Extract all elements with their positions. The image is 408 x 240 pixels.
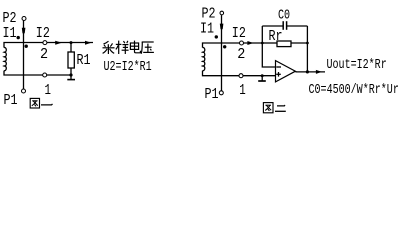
- terminal P2: [22, 17, 26, 21]
- label I1 (fig2): [200, 21, 214, 38]
- output arrow: [316, 70, 322, 74]
- terminal 2 (fig2): [240, 41, 244, 45]
- char dian: [130, 41, 140, 53]
- char ya: [141, 42, 154, 54]
- formula C0=4500/W*Rr*Ur: [309, 81, 399, 97]
- wire feedback right vertical: [306, 26, 308, 72]
- wire coil bottom to opamp plus input: [203, 71, 276, 76]
- polarity dot primary (fig2): [215, 35, 218, 38]
- terminal P2 (fig2): [220, 11, 224, 15]
- caption figure 1 (tu yi): [30, 98, 52, 108]
- formula Uout=I2*Rr: [327, 56, 387, 72]
- node junction R1 top: [70, 41, 73, 44]
- label R1: [77, 53, 91, 70]
- resistor R1: [70, 43, 72, 52]
- label 1: [45, 81, 52, 98]
- label C0: [278, 7, 290, 23]
- capacitor C0: [262, 25, 283, 27]
- char tu: [30, 98, 39, 108]
- resistor Rr: [262, 42, 277, 44]
- node junction R1 bottom: [69, 73, 72, 76]
- svg-text:2: 2: [237, 47, 245, 64]
- svg-text:I1: I1: [3, 26, 17, 43]
- minus sign inside op-amp: [276, 66, 281, 68]
- wire output arrow end: [85, 41, 91, 45]
- svg-text:P1: P1: [4, 93, 18, 110]
- svg-text:1: 1: [239, 81, 246, 98]
- svg-text:I2: I2: [36, 26, 50, 43]
- label I1: [3, 26, 17, 43]
- terminal 2 (secondary): [43, 41, 47, 45]
- text sampling voltage (cai yang dian ya): [103, 41, 154, 54]
- node junction Rr right: [306, 42, 309, 45]
- label Rr: [269, 29, 283, 46]
- char yi (one): [41, 104, 53, 105]
- current arrow I1 (fig2): [220, 24, 224, 30]
- label P2: [3, 11, 17, 28]
- wire inverting feedback left vertical: [262, 26, 275, 67]
- node junction output feedback: [306, 70, 309, 73]
- svg-text:R1: R1: [77, 53, 91, 70]
- label P2 (fig2): [202, 6, 216, 23]
- wire coil bottom stub: [4, 71, 72, 75]
- label 1 (fig2): [239, 81, 246, 98]
- label 2: [40, 47, 48, 64]
- label 2 (fig2): [237, 47, 245, 64]
- char yang: [116, 41, 129, 54]
- ground symbol at opamp plus input: [261, 74, 264, 77]
- formula U2=I2*R1: [104, 58, 152, 74]
- svg-text:Rr: Rr: [269, 29, 283, 46]
- wire primary vertical P2-P1: [23, 21, 25, 89]
- wire secondary top run (fig2): [203, 43, 263, 48]
- wire output: [295, 71, 325, 73]
- polarity dot secondary (fig2): [223, 45, 226, 48]
- svg-text:Uout=I2*Rr: Uout=I2*Rr: [327, 56, 387, 72]
- current arrow I1: [22, 28, 26, 34]
- svg-text:C0: C0: [278, 7, 290, 23]
- char er (two): [277, 104, 285, 107]
- svg-text:I2: I2: [232, 26, 246, 43]
- wire primary vertical P2-P1 (fig2): [221, 15, 223, 91]
- polarity dot secondary: [25, 45, 28, 48]
- char cai: [103, 41, 115, 54]
- label P1 (fig2): [205, 87, 219, 104]
- label I2: [36, 26, 50, 43]
- inductor secondary winding coil (fig2): [203, 48, 205, 71]
- node junction inverting input column top: [261, 42, 264, 45]
- terminal P1 (fig2): [219, 91, 223, 95]
- svg-text:P1: P1: [205, 87, 219, 104]
- label I2 (fig2): [232, 26, 246, 43]
- svg-text:2: 2: [40, 47, 48, 64]
- char tu (fig2): [263, 103, 273, 113]
- label P1: [4, 93, 18, 110]
- wire secondary top run: [4, 43, 93, 48]
- svg-text:C0=4500/W*Rr*Ur: C0=4500/W*Rr*Ur: [309, 81, 399, 97]
- inductor secondary winding coil: [4, 47, 6, 70]
- caption figure 2 (tu er): [263, 103, 285, 113]
- svg-text:1: 1: [45, 81, 52, 98]
- terminal P1: [22, 89, 26, 93]
- terminal 1 (fig2): [239, 74, 243, 78]
- terminal 1 (secondary): [43, 73, 47, 77]
- ground stub figure1: [70, 75, 72, 79]
- current arrow I2 on wire: [55, 41, 62, 45]
- svg-text:U2=I2*R1: U2=I2*R1: [104, 58, 152, 74]
- current arrow I2 on wire (fig2): [247, 41, 253, 45]
- svg-text:I1: I1: [200, 21, 214, 38]
- plus sign inside op-amp: [276, 73, 281, 75]
- polarity dot primary: [17, 36, 20, 39]
- op-amp U1: [276, 61, 296, 82]
